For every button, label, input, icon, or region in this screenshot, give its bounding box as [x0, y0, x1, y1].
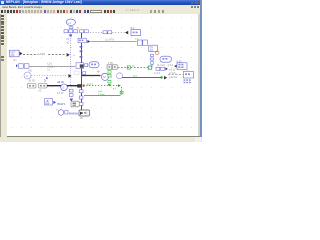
- ext grid X1 (left top box): [10, 50, 20, 57]
- bus B1 (main vertical): [81, 33, 83, 110]
- tick on wire: [46, 77, 48, 79]
- green node on feeder: [127, 66, 130, 69]
- feeder F1 chain down: [69, 89, 73, 96]
- svg-text:L4-2: L4-2: [98, 91, 103, 93]
- green return wire: [84, 95, 121, 97]
- tick above stub: [83, 72, 86, 75]
- gen G2 (mid oval): [89, 62, 99, 68]
- canvas bottom border: [7, 136, 200, 137]
- bus tick marks upper: [80, 46, 83, 58]
- bus tail switches: [79, 90, 83, 106]
- svg-text:BHKW1: BHKW1: [69, 111, 79, 115]
- mdi child buttons: [191, 6, 193, 8]
- svg-text:L7 0.3: L7 0.3: [169, 73, 176, 75]
- heavy LV wire to bus: [47, 85, 81, 87]
- green line solid right: [122, 77, 161, 79]
- toolbar zoom text: [126, 9, 150, 13]
- schematic overlay: [0, 0, 202, 142]
- title text: [6, 0, 96, 5]
- green node box: [120, 91, 123, 94]
- svg-text:p 0.4: p 0.4: [168, 65, 174, 67]
- title bar: [0, 0, 202, 5]
- trafo box pair on LV line: [27, 83, 47, 88]
- window buttons: [191, 1, 194, 5]
- switch pair on wire: [103, 31, 112, 34]
- trafo station left boxes: [16, 64, 29, 68]
- canvas: [7, 14, 198, 136]
- svg-text:N 2: N 2: [131, 27, 136, 30]
- svg-text:ExT 1: ExT 1: [87, 83, 94, 86]
- svg-text:L1-14 kV: L1-14 kV: [105, 40, 115, 42]
- arrow at X1: [20, 52, 23, 56]
- circle right of chain: [117, 73, 123, 79]
- BHKW row bottom: [58, 110, 68, 116]
- bottom load of bus: [79, 110, 90, 116]
- right strip: [198, 14, 200, 136]
- tick below breaker row: [69, 34, 72, 36]
- left toolbar: [0, 14, 7, 136]
- heavy stub to M2: [82, 75, 101, 77]
- chain down from Q1: [151, 54, 154, 64]
- red ring marker: [155, 51, 159, 55]
- right text block J3: [184, 79, 191, 83]
- menu bar: [0, 5, 202, 9]
- svg-text:G: G: [62, 86, 64, 90]
- svg-text:+B 02: +B 02: [57, 80, 64, 84]
- feeder F1 dotted vertical: [70, 34, 72, 86]
- arrow into feeder F1 lower: [68, 74, 71, 78]
- svg-text:q -0.3: q -0.3: [154, 73, 161, 75]
- breaker pair right of bus top: [80, 30, 89, 33]
- arrow into feeder F1: [67, 53, 70, 57]
- right row 2 wire: [168, 74, 183, 76]
- svg-text:L110: L110: [38, 52, 45, 56]
- green chain below boxes: [108, 71, 111, 83]
- transformer T2 box: [131, 27, 141, 36]
- +BKW source box: [45, 99, 53, 106]
- app icon: [1, 1, 4, 4]
- node symbol below G1: [70, 27, 73, 29]
- red mark at junction: [83, 84, 85, 86]
- svg-text:1.1 km: 1.1 km: [98, 94, 105, 96]
- wire dotted M1 to feeder: [32, 75, 69, 77]
- right box J2: [183, 71, 193, 78]
- toolbar: [0, 9, 202, 14]
- green ring: dashed upper: [83, 85, 118, 87]
- svg-text:E1: E1: [14, 58, 18, 62]
- top right feeder component Q1: [149, 45, 158, 52]
- right oval component: [160, 56, 171, 62]
- left window border: [0, 14, 1, 142]
- svg-text:0.12 km: 0.12 km: [169, 77, 177, 79]
- junction block at bus: [77, 84, 82, 87]
- right window border: [200, 0, 202, 142]
- svg-text:G1: G1: [68, 21, 72, 25]
- breaker at bus on wire: [76, 63, 84, 69]
- svg-text:110: 110: [11, 54, 15, 57]
- motor M2 circle: [101, 73, 108, 80]
- wire dashed X1 to feeder F1: [23, 54, 66, 56]
- wire solid to bus: [30, 66, 76, 68]
- svg-text:VL 0.21: VL 0.21: [157, 65, 166, 67]
- right trafo box T4: [174, 61, 187, 69]
- station box bottom: [71, 101, 79, 107]
- green switch: [148, 66, 152, 69]
- bus label box: [78, 38, 86, 43]
- wire dotted to T2: [90, 32, 127, 34]
- arrow into T2: [125, 31, 128, 35]
- svg-text:M: M: [26, 74, 28, 78]
- svg-text:2.3 km: 2.3 km: [48, 66, 55, 69]
- link box to bus: [85, 64, 88, 67]
- arrow right of bus label: [87, 40, 90, 43]
- generator G1 (top oval): [66, 19, 75, 25]
- small label box near bus: [74, 71, 79, 74]
- line label L110: [38, 51, 48, 56]
- green feeder dashed mid: [118, 67, 148, 69]
- right row boxes y69: [156, 67, 164, 70]
- svg-text:TR: TR: [150, 47, 153, 49]
- breaker row CB1: [64, 30, 78, 33]
- meter circle on heavy wire: [61, 84, 68, 91]
- wire bus to right boxes: [91, 41, 137, 43]
- blue squiggle: [44, 79, 47, 82]
- svg-text:L6-1: L6-1: [133, 75, 138, 77]
- status bar: [0, 137, 202, 142]
- svg-text:a 0.12: a 0.12: [169, 69, 176, 71]
- svg-text:0.4 kV: 0.4 kV: [57, 93, 64, 95]
- load boxes right end: [138, 40, 148, 45]
- motor M1 circle left: [24, 72, 31, 79]
- svg-text:S1 05: S1 05: [29, 79, 36, 82]
- green arrow: [118, 84, 121, 87]
- green vertical: [121, 87, 123, 95]
- resize grip: [195, 137, 201, 142]
- svg-text:BKW 1: BKW 1: [58, 102, 67, 106]
